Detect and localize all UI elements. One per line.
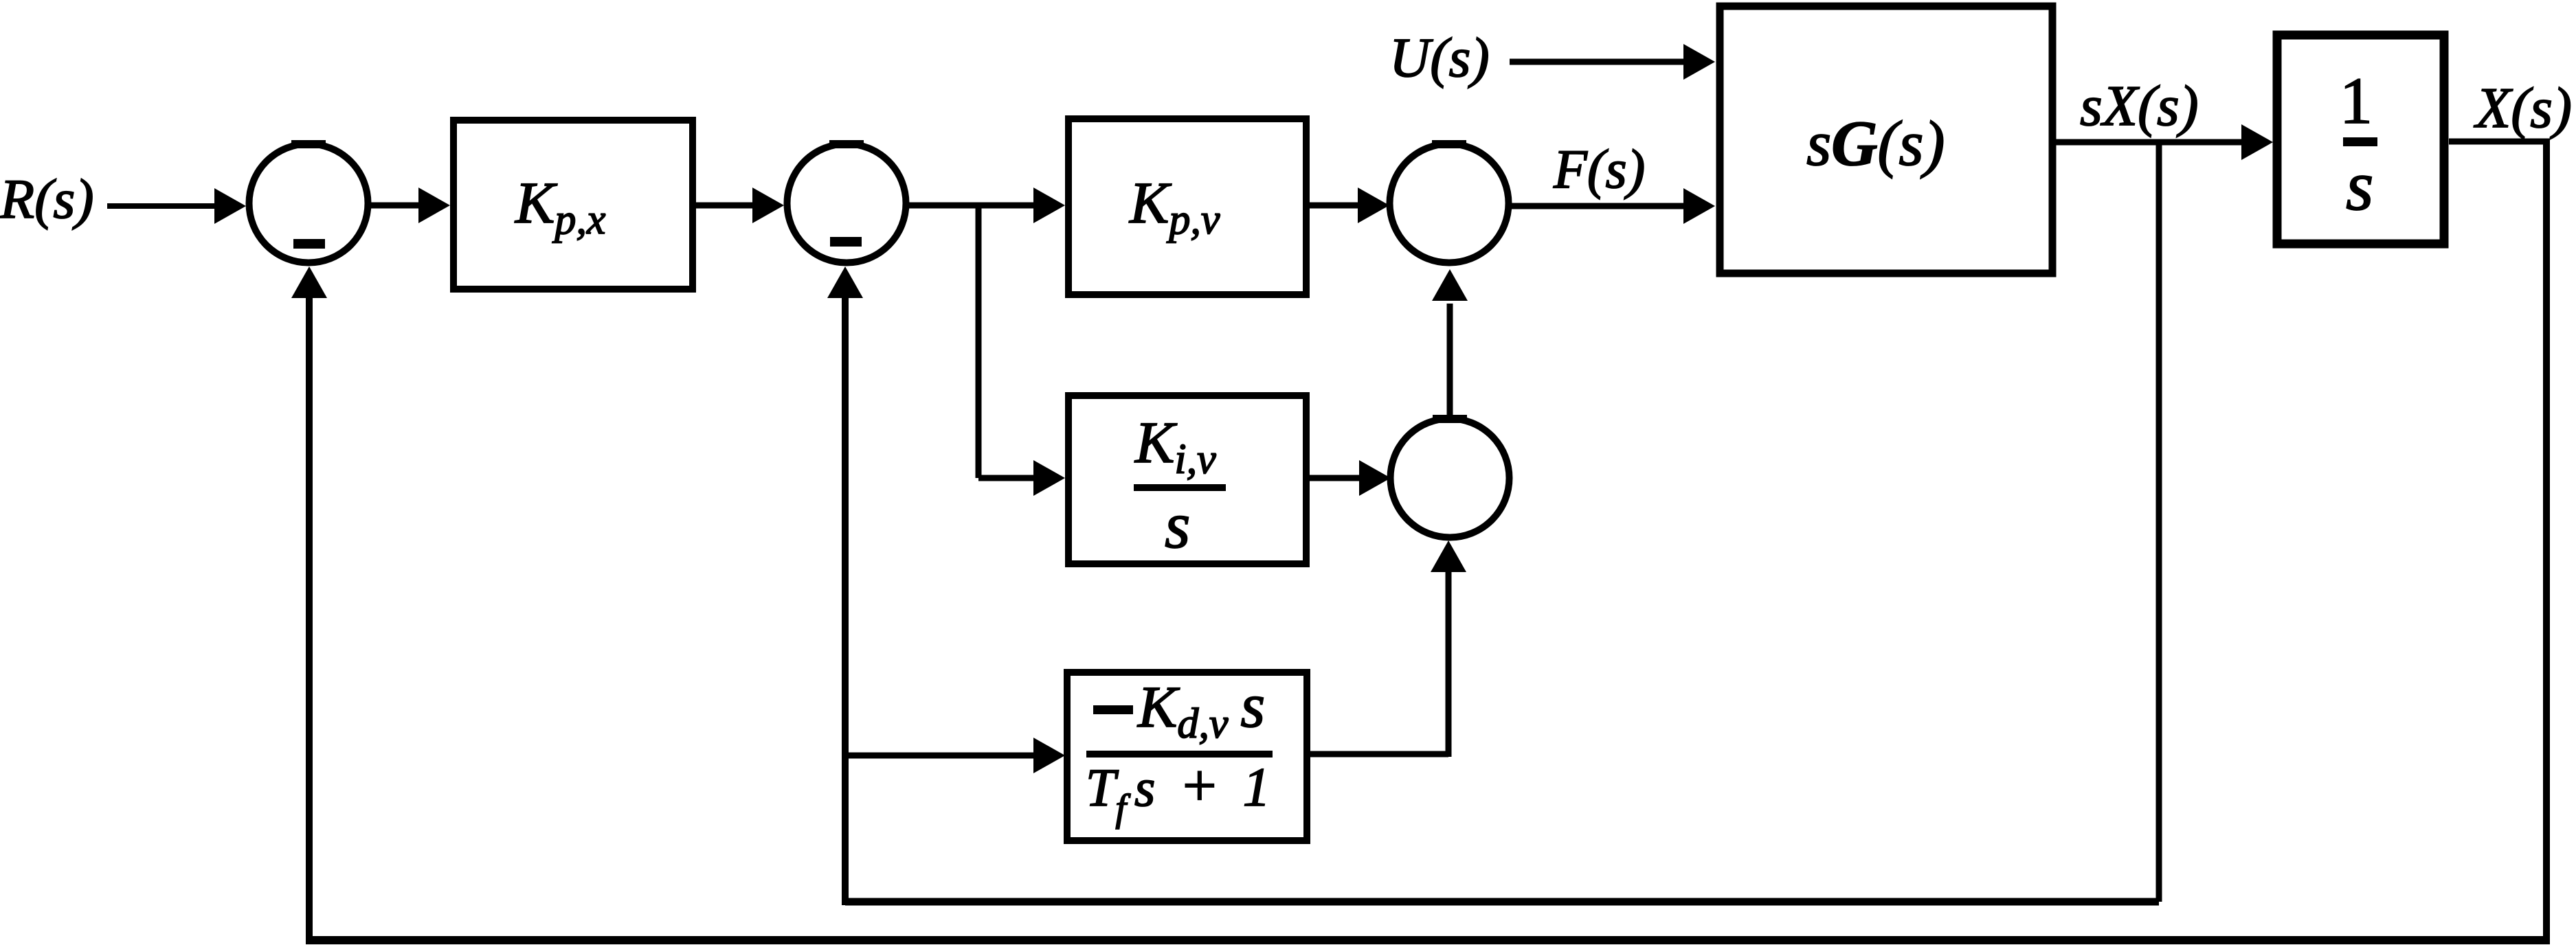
block Kp,x — [453, 120, 693, 289]
wire U(s) to block sG — [1510, 59, 1688, 65]
svg-text:sG(s): sG(s) — [1806, 109, 1945, 179]
svg-text:s: s — [1165, 488, 1190, 562]
wire S3 to block sG, node F(s) — [1509, 203, 1688, 209]
wire derivative output to S4 — [1310, 751, 1448, 758]
summing junction S3 — [1390, 144, 1509, 263]
summing junction S2 — [787, 144, 906, 263]
wire outer feedback right vertical — [2543, 139, 2550, 940]
wire S1 to block Kpx — [368, 203, 423, 209]
summing junction S4 — [1391, 419, 1510, 538]
block derivative -Kdvs/(Tfs+1) — [1067, 672, 1307, 841]
wire outer feedback bottom — [309, 936, 2550, 944]
block Ki,v/s — [1068, 396, 1306, 564]
wire branch to block Kiv — [978, 475, 1038, 481]
block 1/s integrator — [2277, 35, 2444, 244]
block Kp,v — [1068, 119, 1306, 295]
wire Kiv to summing junction S4 — [1306, 475, 1363, 481]
svg-text:X(s): X(s) — [2474, 76, 2572, 140]
wire Kpx to summing junction S2 — [696, 203, 757, 209]
svg-text:F(s): F(s) — [1553, 139, 1645, 200]
wire outer feedback left vertical up to S1 — [306, 295, 313, 944]
wire S4 up to S3 — [1447, 304, 1453, 419]
node branch junction sX(s) to velocity feedback — [2156, 142, 2162, 902]
svg-text:sX(s): sX(s) — [2080, 74, 2199, 138]
block sG(s) plant — [1720, 6, 2052, 273]
wire tap to derivative block — [845, 753, 1038, 759]
svg-text:1: 1 — [2340, 64, 2373, 137]
svg-text:U(s): U(s) — [1389, 26, 1490, 89]
node branch junction to integral path — [976, 205, 982, 478]
svg-text:s: s — [2346, 146, 2373, 225]
summing junction S1 — [249, 144, 368, 263]
wire 1/s output to corner — [2449, 139, 2549, 145]
wire inner velocity feedback horizontal — [845, 898, 2159, 906]
wire R(s) to summing junction S1 — [107, 203, 219, 209]
wire S2 to block Kpv — [906, 203, 1038, 209]
svg-text:R(s): R(s) — [0, 168, 94, 230]
wire inner feedback vertical up to S2 — [842, 295, 849, 905]
wire Kpv to summing junction S3 — [1306, 203, 1362, 209]
wire sG to block 1/s, node sX(s) — [2056, 139, 2245, 146]
